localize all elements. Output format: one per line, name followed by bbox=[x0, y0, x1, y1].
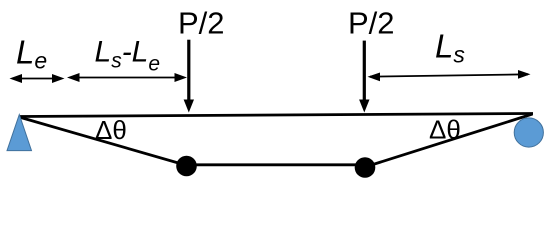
beam top chord line bbox=[19, 114, 533, 117]
svg-text:P/2: P/2 bbox=[348, 6, 395, 41]
dimension arrow Ls-Le bbox=[67, 73, 187, 82]
loading point dot left bbox=[176, 156, 197, 177]
loading point dot right bbox=[355, 157, 376, 178]
dimension arrow Ls bbox=[368, 70, 531, 81]
load arrow P/2 left bbox=[184, 40, 194, 113]
load arrow P/2 right bbox=[359, 41, 369, 113]
svg-text:Δθ: Δθ bbox=[95, 115, 127, 145]
dimension arrow Le bbox=[10, 74, 65, 83]
svg-text:P/2: P/2 bbox=[178, 6, 225, 41]
deflected beam right segment bbox=[365, 114, 533, 167]
svg-text:Δθ: Δθ bbox=[429, 115, 461, 145]
pin support triangle left bbox=[7, 115, 32, 151]
deflected beam left segment bbox=[19, 117, 187, 166]
deflected beam bottom segment bbox=[186, 163, 365, 166]
roller support circle right bbox=[514, 118, 543, 147]
